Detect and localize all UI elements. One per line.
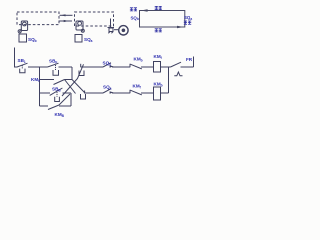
svg-text:KMf: KMf <box>133 84 142 90</box>
svg-text:SBF: SBF <box>49 59 57 65</box>
svg-text:SQa: SQa <box>84 37 93 43</box>
svg-text:FR: FR <box>186 57 193 62</box>
svg-text:KMF: KMF <box>31 77 40 83</box>
svg-text:SQa: SQa <box>103 84 112 90</box>
svg-text:SB1: SB1 <box>18 58 26 64</box>
svg-text:SQb: SQb <box>131 15 139 21</box>
svg-text:KMf: KMf <box>154 54 163 60</box>
svg-text:KMB: KMB <box>55 112 65 118</box>
svg-text:SQb: SQb <box>28 37 37 43</box>
svg-text:KMb: KMb <box>154 81 163 87</box>
svg-text:KMb: KMb <box>134 57 143 63</box>
